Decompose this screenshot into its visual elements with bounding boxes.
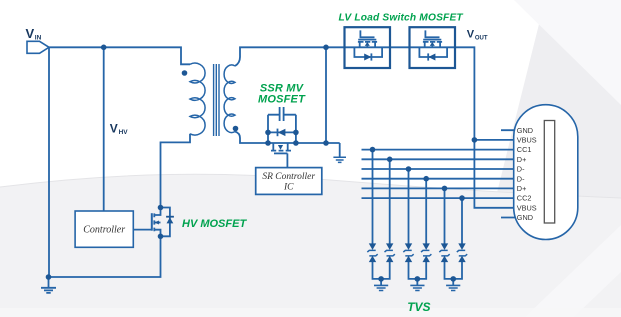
svg-text:D+: D+ (517, 155, 527, 164)
svg-text:MOSFET: MOSFET (258, 94, 306, 106)
svg-text:SR Controller: SR Controller (262, 172, 315, 182)
svg-text:HV MOSFET: HV MOSFET (182, 218, 247, 230)
svg-text:OUT: OUT (475, 36, 488, 42)
svg-text:TVS: TVS (407, 300, 430, 314)
svg-text:CC1: CC1 (517, 145, 532, 154)
svg-text:IN: IN (35, 35, 42, 42)
svg-text:V: V (26, 26, 35, 41)
svg-text:SSR MV: SSR MV (260, 82, 305, 94)
svg-text:V: V (467, 29, 475, 41)
svg-text:D-: D- (517, 165, 525, 174)
svg-text:IC: IC (283, 183, 294, 193)
svg-text:V: V (110, 122, 118, 136)
svg-text:GND: GND (517, 126, 533, 135)
svg-text:VBUS: VBUS (517, 203, 537, 212)
svg-text:HV: HV (119, 129, 129, 136)
svg-text:Controller: Controller (83, 225, 125, 236)
svg-text:D-: D- (517, 174, 525, 183)
svg-text:D+: D+ (517, 184, 527, 193)
svg-text:VBUS: VBUS (517, 136, 537, 145)
svg-text:CC2: CC2 (517, 194, 532, 203)
svg-text:LV Load Switch MOSFET: LV Load Switch MOSFET (339, 13, 464, 24)
svg-text:GND: GND (517, 213, 533, 222)
